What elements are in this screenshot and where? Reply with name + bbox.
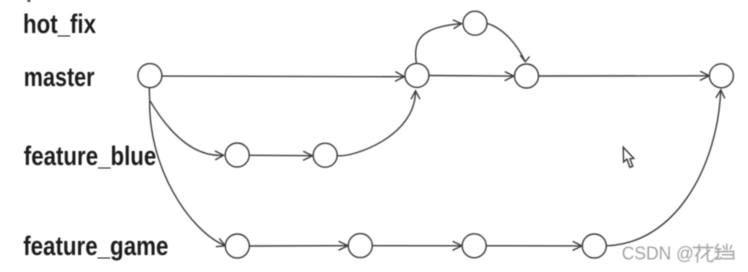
wire stem below master-start node: [148, 88, 150, 101]
node feature_blue 1: [225, 143, 249, 167]
node feature_game 3: [462, 234, 486, 258]
node post-hotfix (master): [515, 64, 539, 88]
arrowhead into merge node from left: [395, 72, 404, 82]
wire curve master-start down to feature_blue node 1: [150, 100, 224, 155]
svg-text:feature_blue: feature_blue: [24, 141, 157, 171]
arrowhead into feature_game node 3: [452, 241, 462, 250]
wire feature_game node1 to node2: [249, 245, 348, 247]
svg-text:CSDN @: CSDN @: [622, 242, 694, 263]
arrowhead into feature_blue node 2: [303, 151, 313, 160]
arrowhead into feature_game node 2: [339, 241, 349, 250]
node hotfix commit: [463, 11, 487, 35]
arrowhead into master-end from below: [716, 90, 725, 99]
wire feature_blue node1 to node2: [249, 154, 312, 156]
node master-end: [709, 64, 733, 88]
arrowhead into hotfix node: [453, 20, 462, 29]
node feature_game 1: [225, 234, 249, 258]
mouse cursor: [623, 147, 634, 167]
arrowhead into feature_game node 1: [216, 238, 226, 246]
svg-text:hot_fix: hot_fix: [23, 9, 96, 39]
wire post-hotfix to master-end: [539, 75, 710, 77]
wire arc hotfix down to post-hotfix: [487, 23, 525, 61]
arrowhead into merge node from below: [411, 91, 420, 99]
arrowhead into post-hotfix from left: [505, 72, 514, 81]
node merge (master): [405, 63, 429, 87]
watermark hanzi dang (铛): [715, 244, 735, 259]
arrowhead into master-end from left: [700, 71, 709, 80]
svg-text:feature_game: feature_game: [23, 231, 168, 261]
node feature_game 2: [348, 234, 372, 258]
cut-off mark at top edge: [27, 0, 30, 2]
wire feature_game node3 to node4: [486, 245, 582, 247]
arrowhead into feature_blue node 1: [215, 151, 224, 160]
arrowhead into post-hotfix from top: [520, 55, 529, 62]
wire master-start to merge: [162, 75, 404, 78]
wire feature_game node2 to node3: [372, 245, 462, 247]
wire merge to post-hotfix: [429, 75, 514, 78]
wire curve feature_blue node2 up to merge node: [337, 91, 416, 156]
wire curve master-start down to feature_game node 1: [150, 100, 226, 246]
wire arc merge up to hotfix: [416, 24, 462, 64]
wire big curve feature_game node4 up to master-end: [606, 90, 721, 246]
node master-start: [138, 64, 162, 88]
watermark hanzi hua (花): [693, 244, 713, 262]
arrowhead into feature_game node 4: [573, 241, 583, 250]
svg-text:master: master: [24, 62, 95, 92]
node feature_game 4: [582, 234, 606, 258]
node feature_blue 2: [313, 143, 337, 167]
